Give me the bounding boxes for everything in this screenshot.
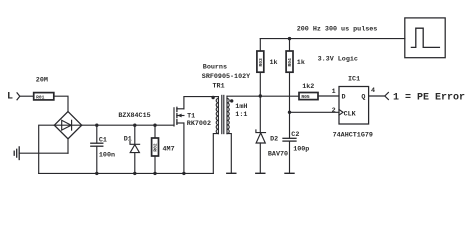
svg-text:BZX84C15: BZX84C15 bbox=[118, 112, 150, 120]
svg-text:BAV70: BAV70 bbox=[268, 150, 288, 158]
mosfet T1 bbox=[174, 107, 184, 126]
transformer TR1 bbox=[211, 95, 233, 133]
junction D1 bottom bbox=[133, 172, 136, 175]
diode D2 bbox=[256, 130, 266, 173]
junction D1 top bbox=[133, 124, 136, 127]
ground rail bbox=[39, 172, 214, 174]
svg-text:C2: C2 bbox=[291, 131, 299, 139]
svg-text:4: 4 bbox=[371, 87, 375, 95]
svg-text:RK7002: RK7002 bbox=[187, 120, 211, 128]
wire L to R1 bbox=[20, 95, 34, 97]
svg-text:1 = PE Error: 1 = PE Error bbox=[393, 92, 465, 103]
svg-text:4M7: 4M7 bbox=[163, 145, 175, 153]
svg-text:200 Hz 300 us pulses: 200 Hz 300 us pulses bbox=[297, 26, 378, 34]
wire D2 top bbox=[259, 96, 261, 133]
capacitor C1 bbox=[91, 125, 103, 173]
junction D2 rail bbox=[259, 94, 262, 97]
junction T1 source bbox=[182, 172, 185, 175]
capacitor C2 bbox=[283, 112, 296, 173]
resistor R5 bbox=[299, 93, 318, 101]
wire earth to bridge bottom bbox=[19, 152, 68, 154]
svg-text:Q: Q bbox=[361, 93, 365, 101]
wire source to ground rail bbox=[183, 123, 185, 173]
bridge rectifier bbox=[54, 112, 81, 139]
svg-text:D1: D1 bbox=[124, 135, 132, 143]
pulse line wire bbox=[260, 38, 405, 40]
svg-text:CLK: CLK bbox=[344, 111, 357, 119]
wire R1 to bridge top bbox=[54, 96, 68, 111]
flip-flop IC1 bbox=[339, 87, 369, 125]
svg-text:1:1: 1:1 bbox=[235, 111, 247, 119]
svg-text:Bourns: Bourns bbox=[203, 64, 227, 72]
svg-text:IC1: IC1 bbox=[348, 75, 360, 83]
junction R4 top bbox=[288, 37, 291, 40]
resistor R4 bbox=[286, 39, 293, 113]
svg-text:R02: R02 bbox=[153, 143, 159, 152]
gnd symbol C2 bbox=[285, 172, 294, 174]
wire secondary bottom bbox=[227, 134, 231, 173]
svg-text:1: 1 bbox=[332, 88, 336, 96]
junction R2 top bbox=[153, 124, 156, 127]
svg-text:1k: 1k bbox=[270, 59, 278, 67]
junction CLK bbox=[288, 111, 291, 114]
wire bridge right rail to gate bbox=[82, 124, 174, 126]
wire CLK bbox=[290, 111, 340, 113]
wire bridge left to ground riser bbox=[39, 125, 55, 173]
wire R5 to D input bbox=[318, 95, 339, 97]
svg-text:74AHCT1G79: 74AHCT1G79 bbox=[333, 132, 373, 140]
svg-text:D: D bbox=[342, 93, 346, 101]
input connector L bbox=[17, 93, 20, 100]
output connector bbox=[385, 93, 389, 100]
svg-text:R05: R05 bbox=[301, 94, 310, 100]
wire primary bottom to rail end bbox=[213, 134, 218, 174]
svg-text:R04: R04 bbox=[287, 58, 293, 67]
svg-text:2: 2 bbox=[332, 107, 336, 115]
earth ground bbox=[14, 147, 19, 160]
wire Q output bbox=[369, 95, 385, 97]
svg-text:R01: R01 bbox=[36, 94, 45, 100]
svg-text:1mH: 1mH bbox=[235, 103, 247, 111]
pulse box bbox=[405, 18, 445, 58]
logic rail from secondary top bbox=[227, 95, 299, 97]
svg-text:R03: R03 bbox=[258, 58, 264, 67]
svg-text:L: L bbox=[7, 91, 13, 102]
junction R2 bottom bbox=[153, 172, 156, 175]
gnd symbol D2 bbox=[256, 172, 265, 174]
gnd symbol TR1 bbox=[227, 172, 236, 174]
wire drain to TR1 primary top bbox=[184, 97, 219, 109]
junction C1 bottom bbox=[95, 172, 98, 175]
svg-text:3.3V Logic: 3.3V Logic bbox=[318, 55, 358, 63]
svg-text:100n: 100n bbox=[99, 152, 115, 160]
wire bridge bottom bbox=[67, 139, 69, 153]
svg-text:TR1: TR1 bbox=[213, 83, 225, 91]
svg-text:C1: C1 bbox=[99, 137, 107, 145]
junction C1 top bbox=[95, 124, 98, 127]
svg-text:SRF0905-102Y: SRF0905-102Y bbox=[202, 73, 251, 81]
zener diode D1 bbox=[130, 125, 140, 173]
resistor R2 bbox=[152, 125, 159, 173]
svg-text:100p: 100p bbox=[293, 146, 309, 154]
svg-text:20M: 20M bbox=[36, 77, 48, 85]
svg-text:D2: D2 bbox=[270, 135, 278, 143]
svg-text:1k2: 1k2 bbox=[302, 83, 314, 91]
svg-text:1k: 1k bbox=[297, 59, 305, 67]
resistor R1 bbox=[34, 93, 54, 101]
resistor R3 bbox=[257, 39, 264, 96]
